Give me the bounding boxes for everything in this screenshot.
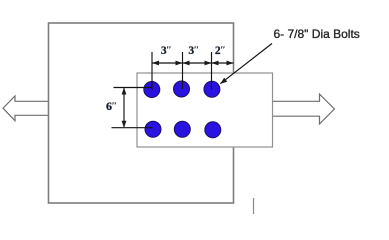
svg-text:6- 7/8" Dia Bolts: 6- 7/8" Dia Bolts: [274, 27, 360, 41]
